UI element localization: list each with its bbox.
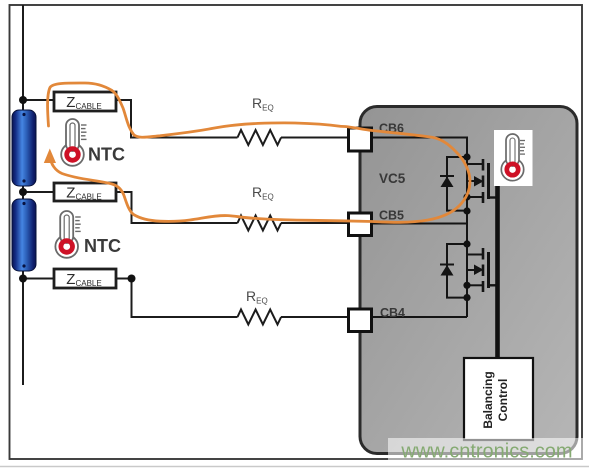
svg-text:CB4: CB4 xyxy=(380,306,405,320)
svg-text:NTC: NTC xyxy=(84,236,121,256)
svg-text:Control: Control xyxy=(496,379,510,422)
svg-text:NTC: NTC xyxy=(88,145,125,165)
svg-text:VC5: VC5 xyxy=(379,171,406,186)
svg-text:CB5: CB5 xyxy=(379,209,404,223)
svg-text:www.cntronics.com: www.cntronics.com xyxy=(400,441,572,463)
svg-text:Balancing: Balancing xyxy=(481,371,495,428)
